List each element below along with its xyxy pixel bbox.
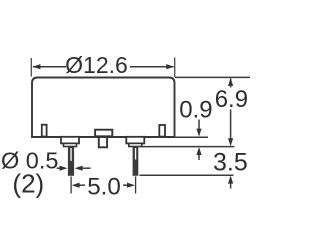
dimension label 6.9 [215,86,248,113]
lead tip extension line [140,174,234,176]
right mounting tab [159,125,165,137]
left lead shoulder [61,137,79,147]
dimension label 5.0 [87,174,121,201]
left mounting tab [42,125,47,137]
right lead shoulder [126,137,144,147]
dimension label 0.9 [179,97,212,124]
body top extension line to right edge [175,76,250,78]
dimension 5.0 right extension line [135,177,137,194]
dimension Ø12.6 line with arrows [32,64,174,69]
svg-text:Ø12.6: Ø12.6 [65,52,128,78]
dimension 5.0 left extension line [70,177,72,194]
svg-text:0.9: 0.9 [179,97,212,124]
right lead pin [133,147,139,176]
dimension Ø12.6 right extension line [174,58,176,78]
dimension Ø12.6 left extension line [30,58,32,77]
body bottom extension line [175,136,209,138]
dimension label Ø12.6 [65,52,128,78]
center standoff upper block [95,130,112,137]
left lead pin [68,147,74,176]
svg-text:(2): (2) [12,169,44,199]
dimension label (2) [12,169,44,199]
dimension label 3.5 [213,149,248,177]
dimension 0.9 arrows [196,120,201,161]
dimension label Ø0.5 [1,147,58,173]
center standoff lower block [99,137,107,147]
dimension Ø0.5 arrows at pin [57,166,91,171]
dimension 3.5 bottom arrow [228,176,233,189]
svg-text:3.5: 3.5 [213,149,248,177]
dimension 5.0 line with arrows [72,183,135,188]
svg-text:5.0: 5.0 [87,174,121,201]
svg-text:6.9: 6.9 [215,86,248,113]
dimension 6.9 vertical line with arrows [228,78,233,146]
component body outline [32,78,175,138]
lead shoulder extension line [140,146,235,148]
